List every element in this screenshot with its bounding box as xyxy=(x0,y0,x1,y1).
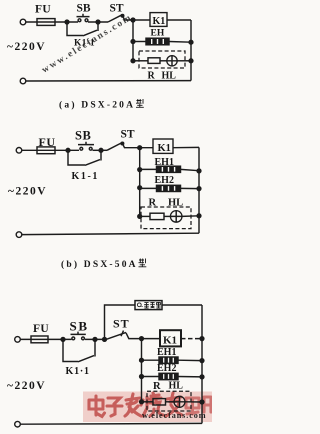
terminal bottom-left (c) xyxy=(15,421,21,427)
watermark diagonal www.elecfans.com xyxy=(40,13,134,76)
wire HL to right rail (b) xyxy=(182,215,199,218)
node heater left (a) xyxy=(131,40,135,44)
wire SB to ST junction (c) xyxy=(85,338,105,340)
wire SB to ST (a) xyxy=(88,21,108,23)
svg-text:K1-1: K1-1 xyxy=(74,39,95,49)
thermostat ST blade (c) xyxy=(106,332,126,339)
wire ST to ladder (a) xyxy=(123,16,150,20)
left rail (c) xyxy=(141,339,143,402)
svg-text:R: R xyxy=(148,71,156,82)
node heater1 left (b) xyxy=(138,168,142,172)
relay coil K1 box (b) xyxy=(153,139,173,153)
wire bottom (b) xyxy=(22,233,199,234)
wire HL to right rail (a) xyxy=(177,60,191,62)
fuse FU (c) xyxy=(31,336,48,343)
node lamp left (c) xyxy=(140,400,144,404)
right rail (b) xyxy=(198,147,200,233)
pushbutton SB contacts (b) xyxy=(80,147,83,150)
resistor R (c) xyxy=(153,399,166,405)
node ladder left-rail top (a) xyxy=(131,18,135,22)
wire SB to ST (b) xyxy=(93,149,108,151)
svg-text:EH2: EH2 xyxy=(157,363,176,374)
lamp HL (c) xyxy=(174,396,185,407)
svg-text:FU: FU xyxy=(39,135,56,149)
node heater2 left (b) xyxy=(138,186,142,190)
dashed enclosure lamp unit (a) xyxy=(139,51,185,68)
heater EH2 (b) xyxy=(157,185,181,191)
友 xyxy=(166,393,182,416)
svg-text:SB: SB xyxy=(77,3,91,15)
svg-text:FU: FU xyxy=(33,323,49,335)
node heater1 left (c) xyxy=(140,358,144,362)
svg-text:EH1: EH1 xyxy=(155,157,174,168)
wire ST to ladder (c) xyxy=(126,333,160,339)
terminal top-left (c) xyxy=(15,337,21,343)
wire fuse to SB (c) xyxy=(48,338,72,340)
node junction left of SB (a) xyxy=(65,20,69,24)
dashed enclosure lamp unit (b) xyxy=(141,207,191,229)
svg-text:SB: SB xyxy=(70,318,89,333)
svg-text:HL: HL xyxy=(162,71,177,82)
wire O3 branch riser (c) xyxy=(105,305,136,339)
dashed enclosure lamp unit (c) xyxy=(147,391,191,411)
node heater right rail (a) xyxy=(189,40,193,44)
lamp HL (b) xyxy=(170,211,182,223)
svg-text:EH1: EH1 xyxy=(157,347,176,358)
wire heater1 branch (b) xyxy=(140,169,199,170)
svg-text:K1: K1 xyxy=(158,143,171,154)
wire R to HL (c) xyxy=(166,401,175,403)
node junction left of SB (b) xyxy=(66,148,70,152)
wire fuse to SB (b) xyxy=(55,149,79,151)
wire lamp branch left (b) xyxy=(140,215,150,217)
svg-text:R: R xyxy=(149,197,157,208)
wire heater2 branch (c) xyxy=(142,376,203,378)
node junction right of SB (b) xyxy=(99,148,103,152)
node lamp right rail (b) xyxy=(197,214,201,218)
thermostat ST blade (a) xyxy=(108,15,122,22)
node lamp left (b) xyxy=(138,215,142,219)
node ladder left-rail top (b) xyxy=(138,146,142,150)
wire R to HL (a) xyxy=(160,60,167,62)
pushbutton SB bridge (a) xyxy=(77,14,90,17)
svg-text:K1: K1 xyxy=(153,16,166,27)
node heater1 right (b) xyxy=(197,169,201,173)
fuse FU (a) xyxy=(37,19,55,26)
caption (a) DSX-20A with 型 glyph xyxy=(59,99,144,111)
contact K1-1 branch (b) xyxy=(68,150,101,165)
svg-text:ST: ST xyxy=(113,317,130,331)
watermark banner background xyxy=(83,392,212,423)
node junction right of SB (c) xyxy=(93,338,97,342)
left rail (a) xyxy=(132,20,134,61)
resistor R (a) xyxy=(148,58,160,64)
heater EH1 (c) xyxy=(159,357,178,363)
watermark banner text 电子发烧友 (hand-drawn strokes) xyxy=(89,393,211,417)
node heater2 left (c) xyxy=(140,375,144,379)
发 xyxy=(125,394,141,416)
svg-text:~220V: ~220V xyxy=(7,41,46,53)
node heater2 right (b) xyxy=(197,187,201,191)
wire lamp branch left (a) xyxy=(133,60,148,62)
svg-text:K1-1: K1-1 xyxy=(72,171,100,182)
wire fuse to SB junction (a) xyxy=(55,21,78,23)
thermostat ST blade (b) xyxy=(107,143,122,151)
svg-text:ST: ST xyxy=(110,3,124,15)
terminal bottom-left (a) xyxy=(20,78,26,84)
node junction left of SB (c) xyxy=(61,338,65,342)
wire HL to right rail (c) xyxy=(185,401,202,403)
svg-text:K1: K1 xyxy=(163,335,177,347)
wire O3 box to right rail (c) xyxy=(162,304,202,306)
wire bottom (a) xyxy=(26,80,191,82)
svg-text:R: R xyxy=(153,381,161,392)
子 xyxy=(107,398,122,416)
node ST right terminal (b) xyxy=(121,142,124,145)
tick on ST blade (c) xyxy=(121,331,124,337)
svg-text:FU: FU xyxy=(35,4,51,16)
left rail (b) xyxy=(139,148,141,217)
relay coil K1 box (c) xyxy=(160,330,181,346)
svg-text:w.elecfans.com: w.elecfans.com xyxy=(142,411,206,420)
O3 generator label strokes (c) xyxy=(137,302,160,308)
terminal top-left (b) xyxy=(16,148,22,154)
svg-text:HL: HL xyxy=(169,381,184,392)
pushbutton SB bridge (b) xyxy=(78,142,94,145)
wire bottom (c) xyxy=(20,422,202,425)
wire ST to ladder (b) xyxy=(123,144,153,148)
O3 generator box (c) xyxy=(135,301,162,310)
relay coil K1 box (a) xyxy=(150,13,167,27)
wire K1 to right rail (a) xyxy=(167,19,191,21)
heater EH1 (b) xyxy=(157,166,181,172)
node lamp left (a) xyxy=(131,59,135,63)
terminal bottom-left (b) xyxy=(16,232,22,238)
node lamp right rail (c) xyxy=(200,400,204,404)
wire heater branch left (a) xyxy=(133,41,146,43)
svg-text:ST: ST xyxy=(121,129,135,141)
node lamp right rail (a) xyxy=(189,59,193,63)
extra char blob right xyxy=(186,398,199,414)
caption (b) DSX-50A with 型 glyph xyxy=(61,259,146,271)
lamp HL (a) xyxy=(167,56,177,66)
svg-text:~220V: ~220V xyxy=(7,380,46,392)
node heater2 right (c) xyxy=(200,375,204,379)
right rail (a) xyxy=(190,20,192,81)
wire heater2 branch (b) xyxy=(140,187,199,189)
wire heater1 branch (c) xyxy=(142,359,203,361)
node O3 branch junction (c) xyxy=(103,338,107,342)
resistor R (b) xyxy=(150,213,164,219)
pushbutton SB contacts (a) xyxy=(78,19,81,22)
right rail (c) xyxy=(201,305,203,423)
partial char at right edge xyxy=(204,397,211,412)
contact K1-1 branch (c) xyxy=(63,339,95,361)
svg-text:(a) DSX-20A: (a) DSX-20A xyxy=(59,100,135,111)
node right rail at main row (c) xyxy=(200,337,204,341)
wire K1 to right rail dashed (c) xyxy=(181,338,202,340)
node junction right of SB (a) xyxy=(96,20,100,24)
烧 xyxy=(141,393,163,416)
svg-text:SB: SB xyxy=(75,128,91,142)
pushbutton SB bridge (c) xyxy=(71,332,86,335)
svg-text:~220V: ~220V xyxy=(8,186,47,198)
fuse FU (b) xyxy=(37,147,55,154)
电 xyxy=(89,396,105,417)
wire terminal to fuse (a) xyxy=(26,21,55,23)
svg-text:(b) DSX-50A: (b) DSX-50A xyxy=(61,259,138,270)
wire K1 to right rail (b) xyxy=(173,146,199,148)
node ladder left-rail top (c) xyxy=(140,337,144,341)
wire R to HL (b) xyxy=(164,215,170,217)
heater EH2 (c) xyxy=(159,373,178,379)
node heater1 right (c) xyxy=(200,359,204,363)
wire terminal to fuse (b) xyxy=(22,149,55,151)
svg-text:EH: EH xyxy=(151,28,165,38)
wire heater right (a) xyxy=(169,41,191,44)
heater EH (a) xyxy=(146,38,169,45)
wire terminal to fuse (c) xyxy=(20,338,48,340)
svg-text:K1·1: K1·1 xyxy=(66,366,90,377)
terminal top-left (a) xyxy=(20,19,26,25)
pushbutton SB contacts (c) xyxy=(72,337,75,340)
node ST right terminal (a) xyxy=(121,15,124,18)
svg-text:HL: HL xyxy=(168,197,183,208)
wire lamp branch left (c) xyxy=(142,401,154,403)
contact K1-1 branch (a) xyxy=(67,22,98,36)
svg-text:EH2: EH2 xyxy=(155,175,174,186)
